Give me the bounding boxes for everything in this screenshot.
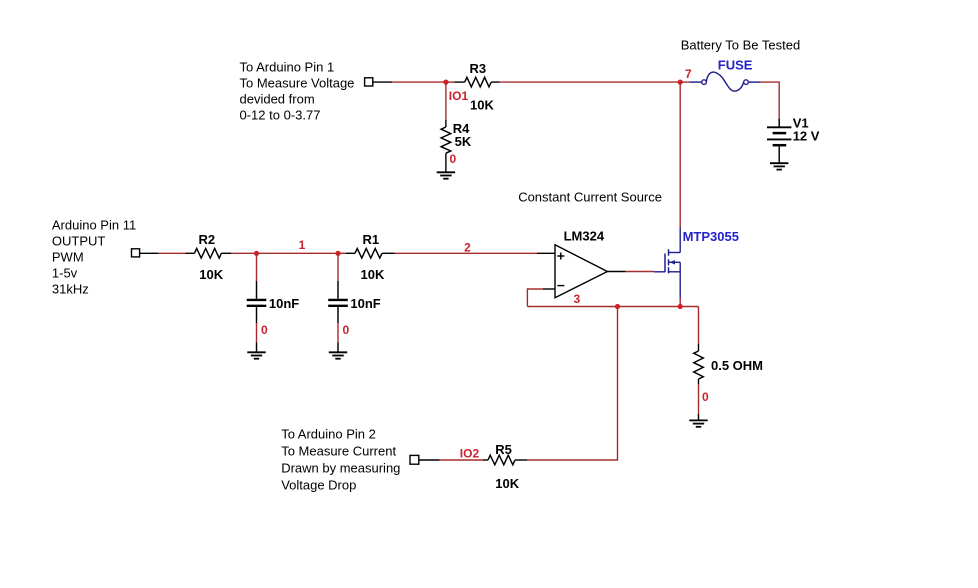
wire R5 up to net 3 junction [527,307,618,461]
wire R2 to node 1 [231,252,256,254]
resistor R5 [483,455,527,465]
ground (battery) [770,163,788,169]
svg-text:IO2: IO2 [460,447,480,461]
svg-text:To Arduino Pin 1: To Arduino Pin 1 [240,60,335,75]
junction net 3 / source tap [678,304,683,309]
svg-text:3: 3 [574,292,581,306]
resistor R4 [441,120,451,173]
capacitor C1 10nF [328,253,348,352]
annotation: To Arduino Pin 1 block [240,60,355,123]
svg-text:MTP3055: MTP3055 [683,229,739,244]
wire net 3 to R sense [698,307,700,345]
svg-text:Arduino Pin 11: Arduino Pin 11 [52,218,136,233]
wire node IO1 down to R4 [445,82,447,120]
svg-text:To Measure Voltage: To Measure Voltage [240,76,355,91]
svg-text:Battery To Be Tested: Battery To Be Tested [681,38,800,53]
svg-text:R1: R1 [363,232,380,247]
svg-text:Drawn by measuring: Drawn by measuring [281,461,400,476]
resistor R3 [446,77,500,87]
svg-text:31kHz: 31kHz [52,282,89,297]
svg-text:Voltage Drop: Voltage Drop [281,478,356,493]
svg-text:Constant Current Source: Constant Current Source [518,190,662,205]
junction node IO1 [443,80,448,85]
svg-text:1-5v: 1-5v [52,266,78,281]
wire node 7 down to MOSFET drain [679,82,681,227]
fuse F1 [690,72,761,91]
terminal: To Arduino Pin 1 [365,78,373,86]
ground (R sense) [689,420,707,426]
svg-text:FUSE: FUSE [718,58,753,73]
svg-text:10K: 10K [361,267,385,282]
wire terminal to R2 [140,252,186,254]
svg-text:R3: R3 [470,61,487,76]
terminal: Arduino Pin 11 [132,249,140,257]
svg-text:0: 0 [702,390,709,404]
svg-text:10K: 10K [495,476,519,491]
svg-text:R5: R5 [495,442,512,457]
wire op-amp - input feedback [527,289,555,307]
svg-text:0: 0 [450,152,457,166]
junction node 1 (C2 tap) [254,251,259,256]
svg-text:10K: 10K [470,98,494,113]
wire terminal to node IO1 [372,81,446,83]
transistor Q1 MTP3055 [654,227,680,298]
svg-text:To Arduino Pin 2: To Arduino Pin 2 [281,427,376,442]
junction node 7 [678,80,683,85]
svg-text:OUTPUT: OUTPUT [52,234,106,249]
annotation: Arduino Pin 11 block [52,218,136,297]
wire R sense to ground [698,384,700,420]
ground (C1) [329,352,347,358]
wire op-amp output to MOSFET gate [607,271,654,273]
svg-text:12 V: 12 V [793,129,820,144]
svg-text:devided from: devided from [240,92,315,107]
svg-text:1: 1 [299,238,306,252]
svg-text:R2: R2 [199,232,216,247]
svg-text:To Measure Current: To Measure Current [281,444,396,459]
svg-text:LM324: LM324 [564,229,605,244]
wire MOSFET source to net 3 [679,298,681,307]
wire node 1 span [257,252,339,254]
svg-text:IO1: IO1 [449,89,469,103]
svg-text:0: 0 [343,323,350,337]
svg-text:5K: 5K [455,134,472,149]
svg-text:0-12 to 0-3.77: 0-12 to 0-3.77 [240,108,321,123]
ground (C2) [247,352,265,358]
wire node 7 to fuse [680,81,690,83]
svg-text:10nF: 10nF [350,296,380,311]
junction node (C1 tap) [335,251,340,256]
resistor R1 [338,249,395,259]
wire terminal to R5 (net IO2) [419,459,483,461]
op-amp U1 LM324 [555,245,607,298]
svg-text:10nF: 10nF [269,296,299,311]
capacitor C2 10nF [247,253,267,352]
svg-text:0.5 OHM: 0.5 OHM [711,358,763,373]
svg-text:7: 7 [685,67,692,81]
svg-text:10K: 10K [199,267,223,282]
wire fuse to battery branch [761,82,780,118]
ground (R4) [437,172,455,178]
wire net 3 horizontal [527,306,698,308]
resistor R2 [185,249,231,259]
battery V1 [767,118,791,162]
svg-text:PWM: PWM [52,250,84,265]
wire R1 to op-amp + input (net 2) [395,252,555,254]
svg-text:2: 2 [464,241,471,255]
junction net 3 / R5 tap [615,304,620,309]
resistor 0.5 OHM [694,344,704,384]
svg-text:0: 0 [261,323,268,337]
terminal: To Arduino Pin 2 [410,455,419,464]
wire R3 to node 7 [500,81,680,83]
annotation: To Arduino Pin 2 block [281,427,400,493]
